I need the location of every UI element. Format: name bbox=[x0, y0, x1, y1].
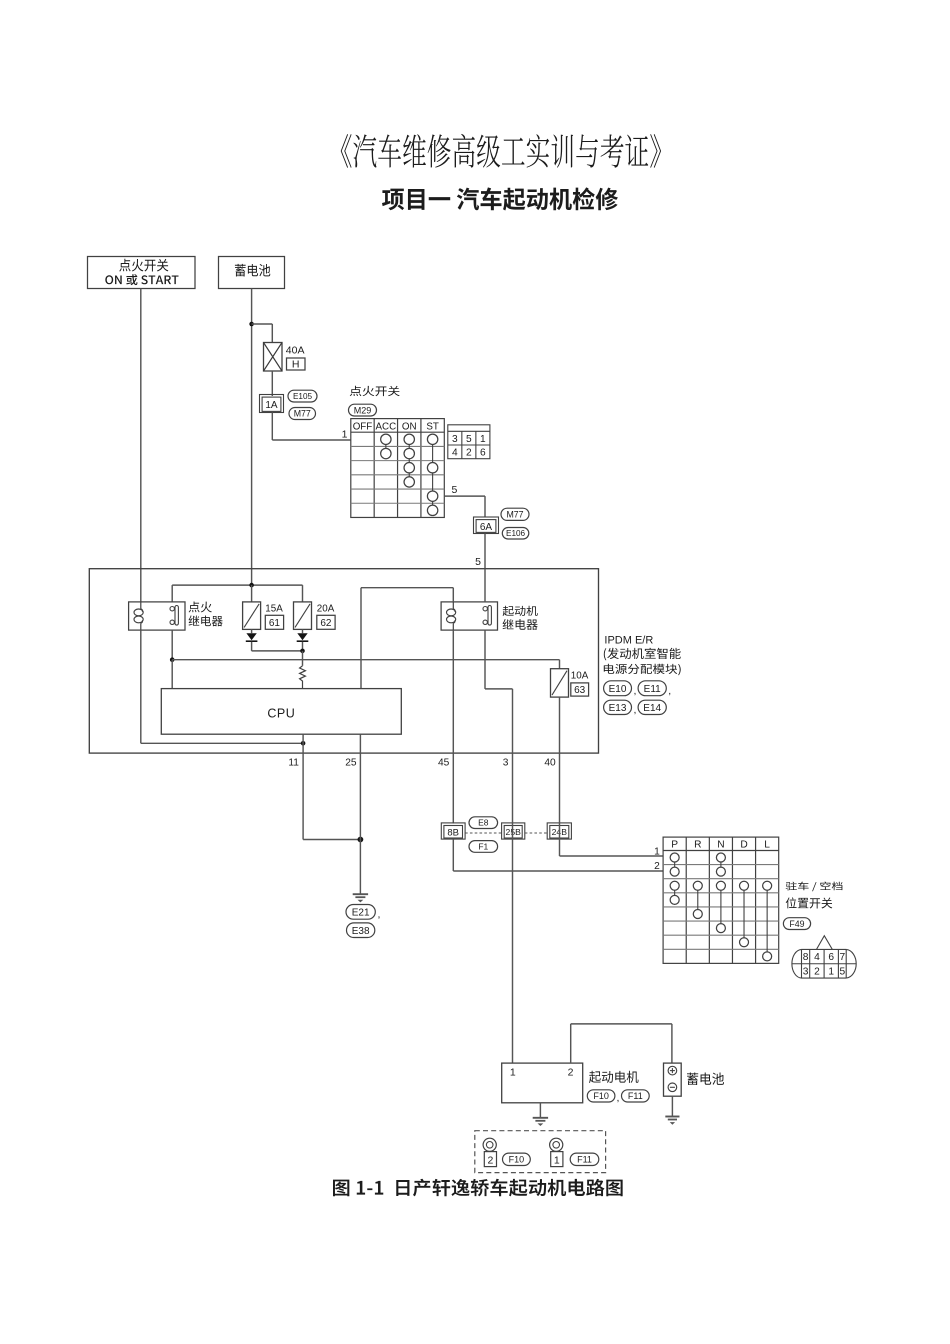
diode under fuse 15A bbox=[251, 629, 253, 633]
relay ignition relay bbox=[129, 602, 185, 630]
fuse 15A 61 bbox=[243, 602, 261, 630]
svg-text:20A: 20A bbox=[317, 604, 335, 615]
wire diode outputs join bbox=[251, 642, 253, 651]
label H box bbox=[287, 358, 306, 370]
switch contacts ON column bbox=[408, 439, 410, 482]
svg-text:63: 63 bbox=[574, 685, 586, 696]
svg-text:F1: F1 bbox=[478, 842, 488, 852]
svg-text:D: D bbox=[740, 840, 747, 851]
ground starter motor bbox=[533, 1117, 548, 1119]
junction pin 11 net bbox=[301, 741, 306, 746]
junction battery branch bbox=[249, 322, 254, 327]
svg-text:IPDM E/R: IPDM E/R bbox=[604, 635, 653, 647]
wire starter to ground bbox=[539, 1103, 541, 1118]
wire battery down bbox=[251, 289, 253, 586]
wire starter relay coil to CPU bbox=[452, 588, 454, 602]
wire ignition relay coil to pin 11 net bbox=[140, 630, 142, 743]
wire pin 5 to starter relay contact bbox=[484, 569, 486, 602]
wire pin 11 to ground net bbox=[302, 753, 304, 839]
connector label M77 lower bbox=[501, 508, 529, 520]
wire ignition switch to IPDM bbox=[140, 289, 142, 569]
junction diode outputs bbox=[300, 649, 305, 654]
svg-text:E21: E21 bbox=[352, 907, 370, 918]
svg-text:E13: E13 bbox=[609, 703, 627, 714]
connector label E10 bbox=[604, 681, 632, 696]
svg-text:1A: 1A bbox=[265, 400, 278, 411]
svg-text:E106: E106 bbox=[506, 529, 526, 538]
wire fuse to connector 1A bbox=[271, 371, 273, 396]
svg-text:F11: F11 bbox=[577, 1155, 592, 1165]
svg-text:,: , bbox=[634, 685, 637, 697]
svg-text:3: 3 bbox=[803, 967, 809, 978]
svg-text:1: 1 bbox=[654, 846, 660, 857]
relay starter relay bbox=[441, 602, 497, 630]
park/neutral switch label bbox=[786, 882, 843, 892]
IPDM E/R module box bbox=[89, 569, 598, 753]
connector 25B bbox=[502, 823, 525, 839]
svg-text:,: , bbox=[378, 909, 381, 921]
svg-text:L: L bbox=[764, 840, 770, 851]
ground battery bbox=[665, 1116, 679, 1118]
node battery box bbox=[219, 257, 285, 289]
ignition switch table M29 bbox=[351, 419, 445, 518]
svg-text:61: 61 bbox=[269, 618, 281, 629]
svg-text:E14: E14 bbox=[643, 703, 661, 714]
fuse 40A H bbox=[264, 343, 283, 372]
svg-text:2: 2 bbox=[487, 1155, 493, 1167]
wire contact node to CPU bbox=[171, 660, 173, 689]
wire pin 40 through 24B to park/neutral switch pin 1 bbox=[559, 753, 561, 856]
junction relay contact node bbox=[170, 657, 175, 662]
switch contacts P column bbox=[674, 858, 676, 872]
svg-text:OFF: OFF bbox=[353, 422, 373, 433]
fuse 10A 63 bbox=[559, 660, 561, 669]
connector label F10 detail bbox=[503, 1153, 531, 1165]
connector pin table 3 5 1 / 4 2 6 bbox=[448, 425, 490, 459]
svg-text:2: 2 bbox=[568, 1067, 574, 1079]
wire CPU to pin 11 bbox=[302, 734, 304, 753]
switch contacts ST column bbox=[432, 439, 434, 510]
wire 8B to park/neutral switch pin 2 bbox=[452, 839, 454, 871]
svg-text:8: 8 bbox=[803, 952, 809, 963]
svg-text:,: , bbox=[617, 1092, 620, 1104]
connector label E21 bbox=[346, 905, 375, 920]
connector label E106 bbox=[502, 528, 529, 540]
svg-text:5: 5 bbox=[475, 556, 481, 568]
svg-text:4: 4 bbox=[452, 448, 458, 459]
svg-text:,: , bbox=[634, 704, 637, 716]
wire ignition switch to relay coil inside IPDM bbox=[140, 569, 142, 602]
detail dashed box connectors F10 F11 bbox=[475, 1131, 606, 1173]
svg-text:M29: M29 bbox=[354, 405, 372, 415]
svg-text:6A: 6A bbox=[480, 522, 493, 533]
connector 8B bbox=[441, 823, 465, 839]
resistor to CPU bbox=[300, 666, 306, 689]
connector label E14 bbox=[638, 700, 666, 714]
svg-text:1: 1 bbox=[828, 967, 834, 978]
ground E21 E38 bbox=[353, 893, 368, 895]
connector label E11 bbox=[638, 681, 666, 696]
svg-text:E38: E38 bbox=[352, 926, 370, 937]
fuse 20A 62 bbox=[294, 602, 312, 630]
switch contacts N column bbox=[720, 858, 722, 872]
park/neutral position switch table F49 bbox=[663, 837, 779, 963]
svg-text:40: 40 bbox=[544, 757, 556, 768]
svg-text:25: 25 bbox=[345, 757, 357, 768]
svg-text:E10: E10 bbox=[609, 684, 627, 695]
svg-text:F49: F49 bbox=[789, 919, 804, 929]
svg-text:N: N bbox=[717, 840, 724, 851]
svg-text:10A: 10A bbox=[571, 671, 589, 682]
ignition switch label bbox=[350, 386, 400, 396]
svg-text:ACC: ACC bbox=[376, 422, 397, 433]
wire pin 45 to connector 8B bbox=[452, 753, 454, 823]
svg-text:CPU: CPU bbox=[267, 706, 295, 720]
connector label E13 bbox=[604, 700, 632, 714]
svg-text:3: 3 bbox=[503, 757, 509, 768]
wire pin 25 to ground bbox=[359, 753, 361, 894]
wire bus to ignition relay contact bbox=[171, 585, 173, 602]
svg-text:H: H bbox=[292, 359, 300, 371]
connector label F49 bbox=[783, 918, 810, 930]
svg-text:15A: 15A bbox=[265, 604, 283, 615]
wire starter relay coil to pin 45 bbox=[452, 630, 454, 753]
starter motor box bbox=[502, 1063, 583, 1103]
connector label E105 bbox=[288, 390, 317, 402]
svg-text:E8: E8 bbox=[478, 818, 489, 828]
svg-text:,: , bbox=[668, 685, 671, 697]
svg-text:25B: 25B bbox=[506, 827, 522, 837]
switch contacts R column bbox=[697, 886, 699, 914]
page subtitle bbox=[382, 187, 618, 210]
svg-text:11: 11 bbox=[288, 757, 299, 768]
wire battery to fuse 15A bbox=[251, 585, 253, 602]
svg-text:62: 62 bbox=[320, 618, 332, 629]
wire ignition relay contact down bbox=[171, 630, 173, 660]
wire branch to fuse 40A bbox=[252, 323, 273, 325]
connector label F11 bbox=[622, 1090, 650, 1102]
svg-text:5: 5 bbox=[452, 484, 458, 496]
battery symbol bbox=[664, 1063, 682, 1096]
wire internal supply bus bbox=[172, 584, 302, 586]
diode under fuse 20A bbox=[302, 629, 304, 633]
svg-text:6: 6 bbox=[480, 448, 486, 459]
harness dashed link 8B-25B bbox=[465, 832, 502, 834]
switch contacts ACC column bbox=[385, 439, 387, 453]
svg-text:2: 2 bbox=[466, 448, 472, 459]
wire CPU to pin 25 bbox=[359, 734, 361, 753]
svg-text:M77: M77 bbox=[294, 409, 311, 419]
harness dashed link 25B-24B bbox=[525, 832, 547, 834]
svg-text:5: 5 bbox=[466, 434, 472, 445]
wire 6A to IPDM pin 5 bbox=[484, 534, 486, 569]
wire starter pin 2 to battery bbox=[570, 1024, 572, 1063]
wire pin 3 through 25B to starter bbox=[512, 753, 514, 1063]
svg-text:ON: ON bbox=[402, 422, 417, 433]
svg-text:2: 2 bbox=[814, 967, 820, 978]
terminal 2 F10 symbol bbox=[483, 1138, 496, 1151]
connector 24B bbox=[547, 823, 571, 839]
connector label M77 bbox=[289, 408, 316, 420]
svg-text:M77: M77 bbox=[506, 509, 523, 519]
wire starter relay contact to pin 3 bbox=[484, 630, 486, 689]
junction battery on bus bbox=[249, 583, 254, 588]
svg-text:45: 45 bbox=[438, 757, 450, 768]
connector label M29 bbox=[349, 404, 377, 416]
switch contacts L column bbox=[766, 886, 768, 957]
svg-text:2: 2 bbox=[654, 861, 660, 872]
svg-text:P: P bbox=[671, 840, 678, 851]
connector label E38 bbox=[347, 923, 375, 938]
svg-text:1: 1 bbox=[342, 429, 348, 441]
svg-text:F11: F11 bbox=[628, 1091, 643, 1101]
connector 6A bbox=[474, 517, 499, 534]
wire to resistor bbox=[302, 651, 304, 666]
svg-text:8B: 8B bbox=[447, 828, 459, 839]
connector label F11 detail bbox=[570, 1153, 599, 1165]
svg-text:ST: ST bbox=[426, 422, 439, 433]
battery label bbox=[687, 1073, 724, 1085]
page title bbox=[341, 134, 661, 168]
svg-text:F10: F10 bbox=[509, 1155, 525, 1165]
connector label E8 bbox=[469, 817, 498, 829]
connector key caret bbox=[817, 936, 833, 950]
svg-text:6: 6 bbox=[828, 952, 834, 963]
wire bus to fuse 20A bbox=[302, 585, 304, 602]
svg-text:1: 1 bbox=[510, 1067, 516, 1079]
switch contacts D column bbox=[743, 886, 745, 942]
svg-text:1: 1 bbox=[554, 1155, 560, 1167]
connector face 8 4 6 7 / 3 2 1 5 bbox=[792, 949, 856, 978]
svg-text:3: 3 bbox=[452, 434, 458, 445]
svg-text:E105: E105 bbox=[293, 392, 313, 401]
wire contact node to fuse 10A bbox=[172, 659, 559, 661]
junction grounds bbox=[358, 837, 364, 843]
wire battery to ground bbox=[671, 1096, 673, 1116]
svg-text:5: 5 bbox=[839, 967, 845, 978]
svg-text:7: 7 bbox=[839, 952, 845, 963]
svg-text:R: R bbox=[694, 840, 701, 851]
connector label F10 bbox=[587, 1090, 615, 1102]
svg-text:1: 1 bbox=[480, 434, 486, 445]
svg-text:4: 4 bbox=[814, 952, 820, 963]
starter motor label bbox=[589, 1071, 639, 1083]
svg-text:E11: E11 bbox=[644, 684, 661, 695]
svg-text:40A: 40A bbox=[286, 345, 305, 357]
wire ST pin 5 to connector 6A bbox=[444, 495, 485, 497]
figure caption bbox=[333, 1179, 623, 1197]
wire 1A to ignition switch pin 1 bbox=[271, 413, 273, 441]
svg-text:F10: F10 bbox=[593, 1091, 609, 1101]
connector label F1 bbox=[469, 841, 498, 853]
node ignition-switch-ON/START box bbox=[88, 257, 196, 289]
CPU box bbox=[161, 689, 401, 735]
wire fuse 10A to pin 40 bbox=[559, 697, 561, 753]
terminal 1 F11 symbol bbox=[550, 1138, 563, 1151]
connector 1A bbox=[260, 395, 284, 413]
